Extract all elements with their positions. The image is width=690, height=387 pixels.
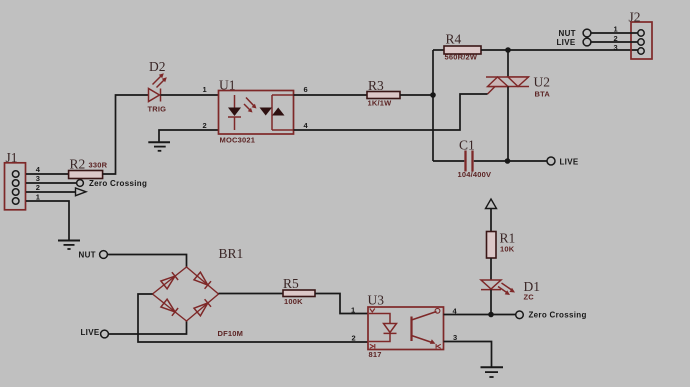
svg-text:817: 817 bbox=[369, 350, 382, 359]
svg-text:1K/1W: 1K/1W bbox=[368, 99, 393, 108]
resistor R2 330R bbox=[69, 157, 108, 179]
wire gate to U1 pin4 bbox=[294, 94, 488, 130]
bridge BR1 DF10M bbox=[153, 246, 244, 338]
svg-text:6: 6 bbox=[304, 85, 308, 94]
wire vertical rail R4/C1 bbox=[432, 50, 434, 161]
op-coupler U3 817 bbox=[368, 293, 444, 360]
svg-text:R2: R2 bbox=[70, 157, 86, 172]
LED D2 TRIG bbox=[148, 59, 167, 114]
bridge diode top-left bbox=[161, 272, 178, 289]
svg-text:3: 3 bbox=[453, 333, 457, 342]
svg-text:J1: J1 bbox=[6, 150, 18, 165]
wire rail to R4 and J2 pin3 bbox=[433, 49, 444, 51]
junction node X bbox=[430, 92, 436, 98]
wire J1 pin1 down bbox=[26, 201, 69, 241]
U3 pin mark bottom-left bbox=[370, 344, 375, 349]
wire U3 pin4 to node bbox=[444, 314, 516, 316]
wire U1 pin6 to R3 bbox=[294, 94, 368, 96]
svg-text:LIVE: LIVE bbox=[560, 158, 579, 167]
power port arrow bbox=[486, 199, 497, 232]
ground below U3 pin3 bbox=[481, 367, 504, 377]
svg-text:560R/2W: 560R/2W bbox=[445, 53, 478, 62]
svg-text:Zero Crossing: Zero Crossing bbox=[529, 311, 587, 320]
wire U3 pin3 to ground bbox=[444, 342, 492, 368]
svg-text:Zero Crossing: Zero Crossing bbox=[89, 179, 147, 188]
triac U2 BTA bbox=[486, 75, 550, 99]
svg-text:100K: 100K bbox=[284, 297, 303, 306]
svg-text:U2: U2 bbox=[534, 75, 551, 90]
svg-text:U1: U1 bbox=[219, 78, 236, 93]
svg-text:DF10M: DF10M bbox=[218, 329, 244, 338]
U3 internal transistor bbox=[412, 312, 437, 344]
wire R1 to D1 bbox=[490, 258, 492, 280]
wire U1 pin2 to ground bbox=[159, 130, 219, 142]
junction C1/triac bbox=[505, 158, 511, 164]
bridge diode bottom-right bbox=[194, 299, 211, 316]
op-coupler U1 MOC3021 bbox=[219, 78, 294, 145]
svg-text:ZC: ZC bbox=[524, 293, 535, 302]
terminal LIVE (right) bbox=[547, 157, 579, 167]
svg-text:LIVE: LIVE bbox=[557, 38, 576, 47]
wire LIVE to J2 pin2 bbox=[591, 41, 638, 43]
svg-text:R1: R1 bbox=[500, 231, 516, 246]
svg-text:10K: 10K bbox=[500, 245, 515, 254]
U3 internal LED bbox=[369, 314, 397, 342]
wire R4 to J2 pin3 bbox=[481, 49, 638, 51]
svg-text:2: 2 bbox=[352, 334, 356, 343]
wire R2 right up to D2 bbox=[103, 95, 149, 174]
svg-text:D2: D2 bbox=[149, 59, 166, 74]
wire J1 pin3 to node bbox=[26, 182, 77, 184]
svg-text:J2: J2 bbox=[629, 10, 641, 25]
svg-text:U3: U3 bbox=[368, 293, 385, 308]
U3 pin mark top-right bbox=[435, 308, 440, 313]
svg-text:104/400V: 104/400V bbox=[458, 170, 492, 179]
svg-text:R3: R3 bbox=[368, 78, 384, 93]
port arrow on pin 2 bbox=[76, 188, 87, 196]
svg-text:LIVE: LIVE bbox=[81, 328, 100, 337]
connector J1 bbox=[5, 150, 26, 210]
wire J1 pin4 to R2 bbox=[26, 173, 69, 175]
junction triac top bbox=[505, 47, 511, 53]
wire J1 pin2 to port bbox=[26, 191, 76, 193]
svg-text:BR1: BR1 bbox=[219, 246, 244, 261]
svg-text:NUT: NUT bbox=[79, 251, 96, 260]
ground below J1 pin1 bbox=[58, 241, 80, 250]
resistor R3 1K/1W bbox=[367, 78, 400, 108]
wire triac MT1 down bbox=[507, 87, 509, 162]
svg-text:2: 2 bbox=[203, 121, 207, 130]
junction zero crossing bbox=[488, 312, 494, 318]
wire bridge left to U3 pin2 bbox=[138, 294, 368, 342]
U1 internal triac bbox=[260, 95, 294, 130]
svg-text:BTA: BTA bbox=[535, 90, 551, 99]
node Zero Crossing (right) bbox=[516, 311, 587, 320]
svg-text:R5: R5 bbox=[283, 276, 299, 291]
wire triac MT2 bbox=[507, 50, 509, 77]
U1 internal LED bbox=[228, 95, 241, 130]
terminal LIVE (bottom) bbox=[81, 328, 109, 338]
bridge diode bottom-left bbox=[161, 299, 178, 316]
wire LIVE to bridge bottom bbox=[108, 321, 186, 334]
wire NUT to J2 pin1 bbox=[591, 32, 638, 34]
bridge diode top-right bbox=[194, 272, 211, 289]
resistor R4 560R/2W bbox=[444, 32, 481, 62]
svg-text:2: 2 bbox=[36, 183, 40, 192]
svg-text:3: 3 bbox=[36, 174, 40, 183]
wire D1 to node bbox=[490, 290, 492, 315]
svg-text:NUT: NUT bbox=[559, 29, 576, 38]
capacitor C1 104/400V bbox=[433, 138, 547, 180]
svg-text:R4: R4 bbox=[446, 32, 462, 47]
svg-text:1: 1 bbox=[36, 192, 40, 201]
resistor R1 10K (vertical) bbox=[487, 231, 516, 259]
svg-text:330R: 330R bbox=[89, 161, 108, 170]
svg-text:MOC3021: MOC3021 bbox=[220, 136, 256, 145]
wire bridge right to R5 bbox=[219, 293, 284, 295]
svg-text:1: 1 bbox=[203, 85, 207, 94]
U1 internal light arrows bbox=[244, 98, 257, 113]
svg-text:TRIG: TRIG bbox=[148, 105, 167, 114]
terminal NUT (bottom) bbox=[79, 251, 108, 260]
wire D2 to U1 pin1 bbox=[161, 94, 219, 96]
U3 pin mark top-left bbox=[370, 309, 375, 313]
LED D1 ZC bbox=[481, 279, 540, 302]
ground below U1 pin2 bbox=[148, 142, 170, 151]
svg-text:3: 3 bbox=[614, 43, 618, 52]
terminal NUT (top) bbox=[559, 29, 591, 38]
svg-text:1: 1 bbox=[351, 306, 355, 315]
svg-text:C1: C1 bbox=[459, 138, 475, 153]
wire NUT to bridge top bbox=[107, 255, 186, 268]
U3 pin mark bottom-right bbox=[436, 344, 441, 349]
terminal LIVE (top) bbox=[557, 38, 591, 47]
resistor R5 100K bbox=[283, 276, 315, 306]
connector J2 bbox=[629, 10, 653, 60]
wire R5 to U3 pin1 bbox=[315, 294, 368, 314]
wire R3 to node bbox=[400, 94, 433, 96]
node Zero Crossing (left) bbox=[77, 179, 148, 188]
